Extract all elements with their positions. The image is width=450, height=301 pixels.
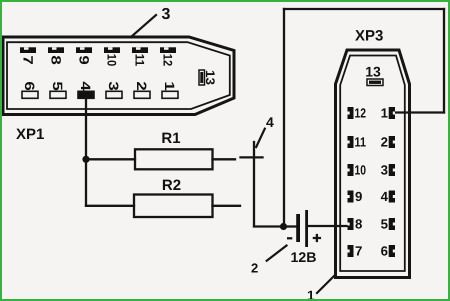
wire from R1 right: [213, 158, 236, 160]
XP1 pin 3: [106, 81, 122, 98]
XP1 pin 5: [50, 81, 66, 98]
svg-text:R1: R1: [161, 130, 180, 147]
node battery junction: [280, 223, 287, 230]
XP1 pin 7: [20, 47, 36, 64]
node junction at R1 branch: [82, 156, 89, 163]
svg-text:11: 11: [355, 135, 367, 150]
svg-text:2: 2: [251, 261, 258, 276]
svg-text:1: 1: [162, 81, 177, 91]
wire battery plus to XP3 pin 8: [308, 225, 348, 227]
wire right vertical: [443, 9, 445, 113]
svg-text:13: 13: [365, 64, 381, 80]
svg-text:R2: R2: [162, 177, 181, 194]
XP1 pin 11: [132, 47, 148, 66]
XP1 pin 13: [199, 70, 217, 85]
XP1 pin 1: [162, 81, 178, 98]
svg-text:3: 3: [106, 81, 121, 91]
wire from XP1 pin 4 down: [85, 98, 87, 206]
callout 1 arrow: [317, 276, 335, 294]
battery plus sign: [314, 235, 320, 241]
svg-text:7: 7: [355, 244, 362, 259]
svg-text:9: 9: [355, 189, 362, 204]
wire to R2: [86, 205, 134, 207]
XP3 pin 2: [381, 135, 395, 150]
XP3 pin 12: [348, 106, 367, 121]
svg-text:6: 6: [381, 244, 388, 259]
svg-text:13: 13: [203, 70, 217, 85]
svg-text:8: 8: [355, 217, 362, 232]
XP3 pin 4: [381, 189, 395, 204]
connector XP3 outer outline: [336, 50, 410, 278]
wire to R1: [86, 158, 135, 160]
connector XP1 inner outline: [7, 42, 230, 109]
callout 4 arrow: [256, 129, 265, 147]
wire probe-4 to battery junction: [254, 225, 284, 227]
svg-text:11: 11: [133, 54, 147, 67]
svg-text:3: 3: [162, 6, 171, 23]
svg-text:5: 5: [50, 81, 65, 91]
svg-text:7: 7: [21, 55, 36, 64]
svg-text:ХР3: ХР3: [355, 28, 383, 45]
XP1 pin 6: [22, 81, 38, 98]
svg-text:4: 4: [381, 189, 389, 204]
XP3 pin 8: [348, 217, 363, 232]
XP1 pin 8: [48, 47, 64, 65]
svg-text:12: 12: [161, 54, 175, 67]
svg-text:1: 1: [307, 288, 315, 299]
wire segment at probe 4: [241, 156, 263, 158]
wire from R2 right (open end): [213, 205, 241, 207]
connector XP1 outer outline: [3, 37, 234, 115]
XP3 pin 3: [381, 163, 395, 178]
wire into XP3 pin 1: [395, 111, 444, 113]
svg-text:ХР1: ХР1: [16, 126, 44, 143]
connector XP3 inner outline: [340, 56, 405, 272]
XP3 pin 6: [381, 244, 395, 259]
svg-text:12В: 12В: [291, 249, 317, 265]
svg-text:2: 2: [134, 81, 149, 90]
svg-text:9: 9: [77, 55, 92, 64]
svg-text:6: 6: [22, 81, 37, 91]
svg-text:3: 3: [381, 163, 388, 178]
resistor R1: [135, 149, 213, 169]
callout 3 arrow: [131, 15, 156, 37]
XP1 pin 4: [78, 81, 94, 98]
XP3 pin 5: [381, 217, 395, 232]
XP3 pin 1: [381, 106, 395, 121]
svg-text:4: 4: [78, 81, 93, 91]
callout 2 arrow: [267, 246, 287, 261]
wire top horizontal: [284, 8, 444, 10]
svg-text:12: 12: [355, 106, 367, 121]
XP3 pin 13: [365, 64, 383, 86]
battery GB plus plate: [305, 210, 308, 247]
probe wire 4 vertical: [253, 142, 255, 226]
svg-text:10: 10: [105, 54, 119, 67]
svg-text:2: 2: [381, 135, 388, 150]
battery GB minus plate: [296, 214, 300, 242]
XP1 pin 12: [160, 47, 176, 66]
svg-text:5: 5: [381, 217, 388, 232]
XP3 pin 11: [348, 135, 367, 150]
svg-text:1: 1: [381, 106, 388, 121]
XP1 pin 9: [76, 47, 92, 64]
battery minus sign: [287, 237, 292, 239]
resistor R2: [134, 195, 213, 218]
svg-text:10: 10: [355, 163, 367, 178]
XP1 pin 2: [134, 81, 150, 98]
svg-text:8: 8: [49, 55, 64, 65]
XP3 pin 10: [348, 163, 367, 178]
XP3 pin 9: [348, 189, 363, 204]
svg-text:4: 4: [266, 114, 274, 130]
wire main vertical to top: [283, 9, 285, 227]
XP1 pin 10: [104, 47, 120, 66]
XP3 pin 7: [348, 244, 363, 259]
wire battery minus: [284, 225, 297, 227]
